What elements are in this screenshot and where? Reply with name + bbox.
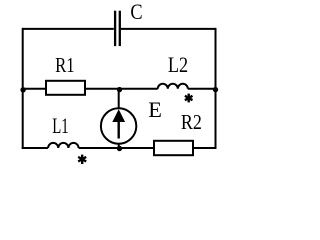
svg-text:R2: R2: [181, 110, 202, 134]
svg-text:C: C: [130, 0, 142, 24]
svg-text:R1: R1: [55, 53, 75, 77]
svg-text:L1: L1: [52, 113, 68, 138]
svg-text:E: E: [148, 97, 162, 122]
svg-text:L2: L2: [168, 52, 188, 77]
